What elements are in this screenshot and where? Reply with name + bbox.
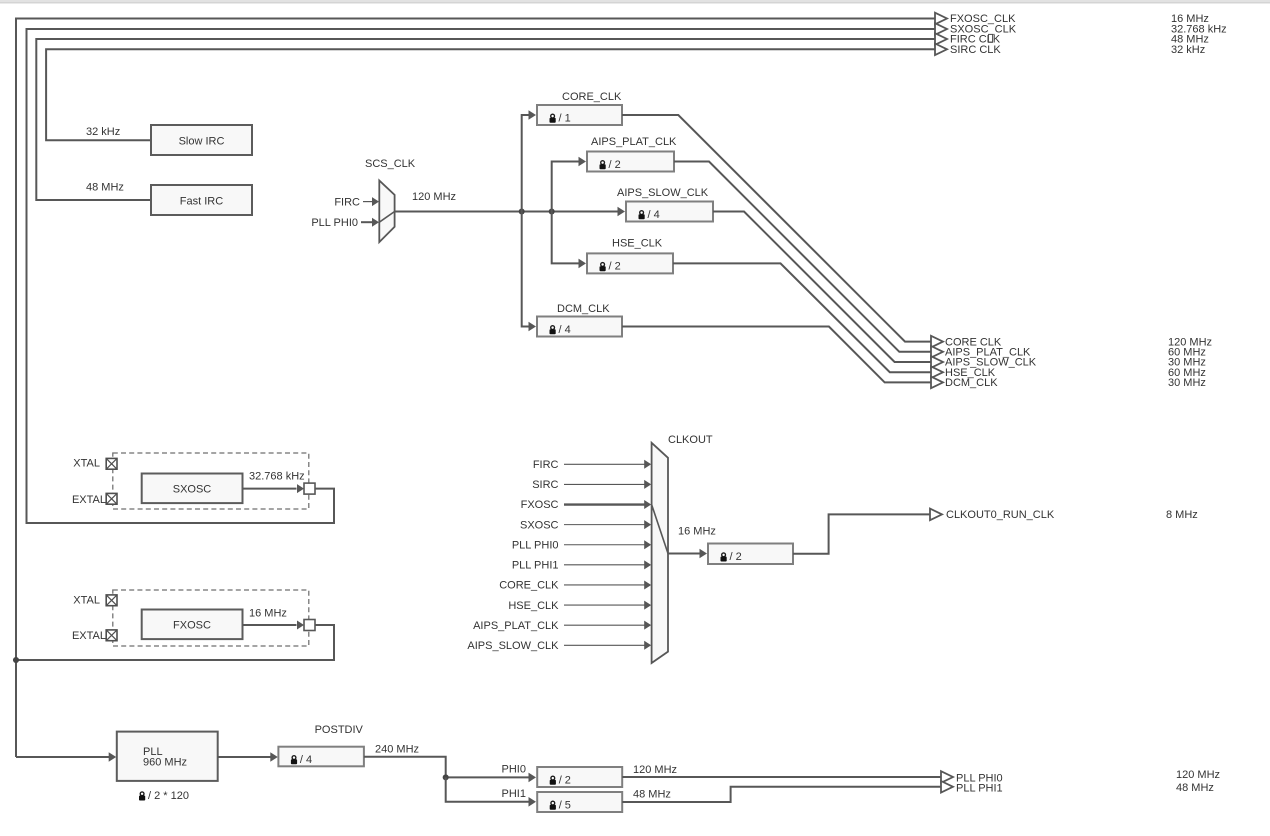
- svg-text:DCM_CLK: DCM_CLK: [945, 377, 998, 389]
- svg-text:/ 2: / 2: [730, 551, 742, 563]
- svg-text:48 MHz: 48 MHz: [633, 789, 671, 801]
- svg-text:SCS_CLK: SCS_CLK: [365, 158, 416, 170]
- svg-text:30 MHz: 30 MHz: [1168, 377, 1206, 389]
- svg-text:120 MHz: 120 MHz: [412, 191, 456, 203]
- svg-text:FIRC: FIRC: [533, 459, 559, 471]
- svg-text:FXOSC: FXOSC: [173, 620, 211, 632]
- svg-text:32 kHz: 32 kHz: [86, 126, 120, 138]
- svg-text:/ 2: / 2: [609, 159, 621, 171]
- svg-text:32.768 kHz: 32.768 kHz: [249, 471, 305, 483]
- svg-text:SIRC: SIRC: [532, 479, 558, 491]
- svg-text:AIPS_SLOW_CLK: AIPS_SLOW_CLK: [467, 640, 559, 652]
- svg-text:CLKOUT: CLKOUT: [668, 434, 713, 446]
- svg-text:16 MHz: 16 MHz: [249, 608, 287, 620]
- svg-text:CLKOUT0_RUN_CLK: CLKOUT0_RUN_CLK: [946, 509, 1055, 521]
- svg-text:16 MHz: 16 MHz: [678, 526, 716, 538]
- svg-text:/ 5: / 5: [559, 799, 571, 811]
- svg-text:SXOSC: SXOSC: [173, 484, 212, 496]
- svg-text:120 MHz: 120 MHz: [633, 764, 677, 776]
- svg-text:/ 4: / 4: [648, 209, 660, 221]
- svg-text:HSE_CLK: HSE_CLK: [508, 600, 559, 612]
- svg-text:/ 4: / 4: [300, 754, 312, 766]
- svg-text:48 MHz: 48 MHz: [86, 181, 124, 193]
- svg-text:Fast IRC: Fast IRC: [180, 195, 223, 207]
- svg-text:PLL PHI1: PLL PHI1: [512, 560, 559, 572]
- svg-text:/ 2: / 2: [609, 261, 621, 273]
- svg-text:960 MHz: 960 MHz: [143, 757, 187, 769]
- svg-text:SIRC CLK: SIRC CLK: [950, 44, 1001, 56]
- svg-text:HSE_CLK: HSE_CLK: [612, 238, 663, 250]
- svg-text:/ 2 * 120: / 2 * 120: [148, 790, 189, 802]
- svg-text:/ 4: / 4: [559, 324, 571, 336]
- svg-text:AIPS_SLOW_CLK: AIPS_SLOW_CLK: [617, 187, 709, 199]
- svg-text:EXTAL: EXTAL: [72, 494, 106, 506]
- svg-text:XTAL: XTAL: [73, 457, 100, 469]
- svg-text:CORE_CLK: CORE_CLK: [562, 91, 622, 103]
- svg-text:Slow IRC: Slow IRC: [179, 135, 225, 147]
- svg-text:EXTAL: EXTAL: [72, 630, 106, 642]
- svg-text:AIPS_PLAT_CLK: AIPS_PLAT_CLK: [473, 620, 559, 632]
- svg-text:POSTDIV: POSTDIV: [315, 724, 364, 736]
- svg-text:XTAL: XTAL: [73, 594, 100, 606]
- svg-text:32 kHz: 32 kHz: [1171, 44, 1205, 56]
- svg-text:CORE_CLK: CORE_CLK: [499, 580, 559, 592]
- svg-text:48 MHz: 48 MHz: [1176, 782, 1214, 794]
- svg-text:120 MHz: 120 MHz: [1176, 769, 1220, 781]
- svg-text:FXOSC: FXOSC: [521, 499, 559, 511]
- svg-text:PLL PHI1: PLL PHI1: [956, 782, 1003, 794]
- svg-text:/ 2: / 2: [559, 774, 571, 786]
- svg-text:PHI0: PHI0: [502, 764, 526, 776]
- svg-text:PHI1: PHI1: [502, 788, 526, 800]
- svg-text:PLL PHI0: PLL PHI0: [311, 217, 358, 229]
- svg-text:DCM_CLK: DCM_CLK: [557, 303, 610, 315]
- svg-text:SXOSC: SXOSC: [520, 519, 559, 531]
- svg-text:/ 1: / 1: [559, 112, 571, 124]
- svg-text:8 MHz: 8 MHz: [1166, 509, 1198, 521]
- svg-text:PLL PHI0: PLL PHI0: [512, 539, 559, 551]
- svg-text:FIRC: FIRC: [334, 197, 360, 209]
- svg-text:240 MHz: 240 MHz: [375, 743, 419, 755]
- svg-text:AIPS_PLAT_CLK: AIPS_PLAT_CLK: [591, 136, 677, 148]
